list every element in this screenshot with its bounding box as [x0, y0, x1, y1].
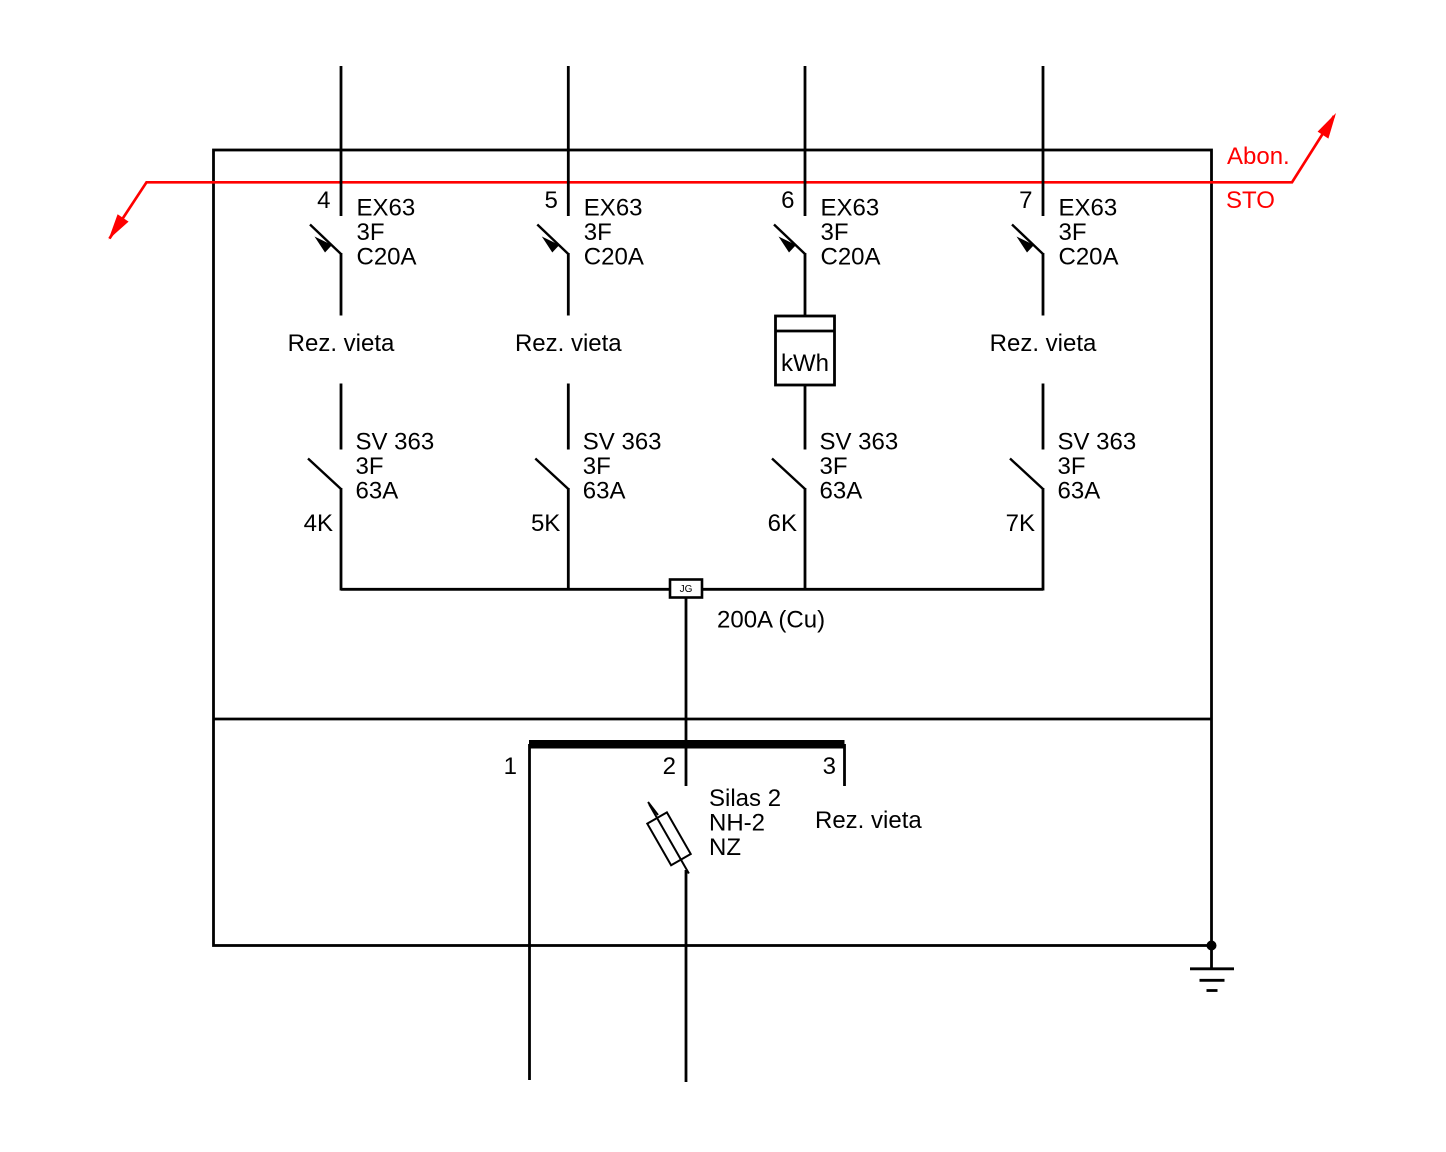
circuit breaker 6 EX63 3F C20A	[774, 225, 805, 255]
svg-text:4K: 4K	[304, 510, 333, 537]
switch 4K SV 363	[308, 459, 341, 490]
svg-text:63A: 63A	[1058, 477, 1101, 504]
svg-text:JG: JG	[680, 584, 693, 595]
svg-text:3F: 3F	[820, 453, 848, 480]
svg-text:SV 363: SV 363	[1058, 429, 1137, 456]
svg-text:Rez. vieta: Rez. vieta	[515, 330, 622, 357]
outgoing way 3 stub	[843, 744, 846, 786]
svg-text:NZ: NZ	[709, 834, 741, 861]
svg-text:EX63: EX63	[584, 195, 643, 222]
svg-text:kWh: kWh	[781, 350, 829, 377]
svg-text:3F: 3F	[1058, 453, 1086, 480]
svg-text:3F: 3F	[583, 453, 611, 480]
enclosure outline	[214, 150, 1212, 946]
svg-text:3F: 3F	[357, 219, 385, 246]
svg-text:Rez. vieta: Rez. vieta	[288, 330, 395, 357]
svg-text:2: 2	[663, 753, 676, 780]
wire	[567, 488, 570, 591]
red arrowhead left	[109, 214, 129, 239]
svg-text:1: 1	[504, 753, 517, 780]
fuse switch Silas 2 NH-2 NZ	[639, 798, 698, 879]
svg-text:Abon.: Abon.	[1227, 143, 1290, 170]
svg-text:STO: STO	[1226, 187, 1275, 214]
red arrowhead right	[1318, 113, 1336, 139]
ground symbol	[1190, 946, 1234, 991]
svg-text:7K: 7K	[1006, 510, 1035, 537]
svg-text:3F: 3F	[1059, 219, 1087, 246]
wire	[340, 488, 343, 591]
svg-text:3: 3	[823, 753, 836, 780]
red incoming line STO	[110, 116, 1335, 239]
circuit breaker 4 EX63 3F C20A	[310, 225, 341, 255]
main busbar	[529, 740, 845, 749]
switch 5K SV 363	[535, 459, 568, 490]
svg-text:Rez. vieta: Rez. vieta	[990, 330, 1097, 357]
svg-text:EX63: EX63	[821, 195, 880, 222]
svg-text:SV 363: SV 363	[356, 429, 435, 456]
junction box JG	[670, 580, 702, 598]
wire	[804, 385, 807, 450]
svg-text:C20A: C20A	[357, 243, 417, 270]
wire	[1042, 384, 1045, 450]
svg-text:Silas 2: Silas 2	[709, 785, 781, 812]
switch 7K SV 363	[1010, 459, 1043, 490]
svg-text:4: 4	[317, 187, 330, 214]
energy meter kWh	[776, 316, 835, 385]
PEN junction dot	[1207, 941, 1217, 951]
svg-text:C20A: C20A	[1059, 243, 1119, 270]
svg-text:63A: 63A	[820, 477, 863, 504]
feeder 7 incoming wire	[1042, 66, 1045, 216]
outgoing way 2 wire	[685, 870, 688, 1082]
wire	[1042, 488, 1045, 591]
svg-text:C20A: C20A	[821, 243, 881, 270]
wire	[804, 253, 807, 316]
feeder 4 incoming wire	[340, 66, 343, 216]
svg-text:6: 6	[781, 187, 794, 214]
svg-text:5K: 5K	[531, 510, 560, 537]
svg-text:Rez. vieta: Rez. vieta	[815, 807, 922, 834]
circuit breaker 5 EX63 3F C20A	[537, 225, 568, 255]
wire	[340, 253, 343, 316]
svg-text:NH-2: NH-2	[709, 810, 765, 837]
feeder 6 incoming wire	[804, 66, 807, 216]
collector bus 200A (Cu)	[341, 588, 1043, 591]
svg-text:EX63: EX63	[357, 195, 416, 222]
circuit breaker 7 EX63 3F C20A	[1012, 225, 1043, 255]
svg-text:7: 7	[1019, 187, 1032, 214]
svg-text:5: 5	[544, 187, 557, 214]
switch 6K SV 363	[772, 459, 805, 490]
svg-text:6K: 6K	[768, 510, 797, 537]
wire	[340, 384, 343, 450]
wire	[804, 488, 807, 591]
svg-text:63A: 63A	[583, 477, 626, 504]
svg-text:EX63: EX63	[1059, 195, 1118, 222]
svg-text:3F: 3F	[821, 219, 849, 246]
svg-text:C20A: C20A	[584, 243, 644, 270]
enclosure section divider	[214, 718, 1212, 721]
svg-text:63A: 63A	[356, 477, 399, 504]
svg-text:SV 363: SV 363	[820, 429, 899, 456]
wire	[567, 253, 570, 316]
wire	[1042, 253, 1045, 316]
svg-text:200A (Cu): 200A (Cu)	[717, 607, 825, 634]
feed wire from bus to busbar	[685, 598, 688, 787]
wire	[567, 384, 570, 450]
svg-text:3F: 3F	[584, 219, 612, 246]
outgoing way 1 wire	[528, 744, 531, 1080]
svg-text:3F: 3F	[356, 453, 384, 480]
svg-text:SV 363: SV 363	[583, 429, 662, 456]
feeder 5 incoming wire	[567, 66, 570, 216]
